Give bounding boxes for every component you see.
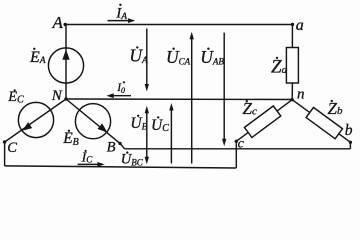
bottom wire C to c: [5, 166, 237, 168]
arrowhead EB down-right (emf direction): [98, 123, 108, 132]
voltage arrow UBC line: [146, 149, 148, 159]
node A dot: [63, 23, 66, 26]
node N dot: [64, 97, 67, 100]
dot of UBC: [126, 151, 128, 153]
voltage arrow UC line: [170, 109, 172, 164]
wire a down to Za: [291, 25, 293, 48]
svg-text:a: a: [296, 17, 304, 34]
svg-text:A: A: [52, 13, 64, 32]
arrowhead UC up: [169, 103, 173, 111]
dot of IA: [119, 4, 121, 6]
svg-text:C: C: [7, 140, 17, 156]
wire b stub up: [349, 142, 351, 149]
voltage arrow UA line: [146, 29, 148, 86]
wire B corner: [120, 143, 125, 148]
voltage arrow UCA line: [191, 38, 193, 164]
arrowhead IC right: [97, 162, 104, 167]
arrowhead UBC down: [145, 157, 149, 165]
dot of Zc: [246, 100, 248, 102]
svg-text:N: N: [51, 88, 63, 104]
arrowhead UCA up: [190, 32, 194, 40]
voltage arrow UAB line: [223, 33, 225, 141]
arrowhead IA right: [128, 18, 135, 23]
wire N to B (diagonal): [66, 99, 120, 143]
dot of UAB: [207, 48, 209, 50]
arrowhead EA up (emf direction): [62, 50, 69, 60]
wire C down to bottom wire: [4, 142, 6, 166]
node C dot: [3, 140, 6, 143]
dot of Zb: [331, 100, 333, 102]
dot of IC: [85, 150, 87, 152]
source EA circle: [48, 48, 83, 83]
node c dot: [235, 140, 238, 143]
dot of UCA: [172, 48, 174, 50]
wire n to Zc to c (diagonal): [236, 100, 292, 142]
node a dot: [291, 23, 294, 26]
impedance Zb rectangle: [306, 107, 342, 138]
impedance Za rectangle: [286, 48, 298, 84]
wire B to b (bottom phase wire): [125, 148, 351, 150]
svg-text:B: B: [107, 139, 116, 155]
arrowhead UAB down: [222, 139, 226, 147]
dot of Za: [276, 57, 278, 59]
arrowhead UA down: [145, 84, 149, 92]
wire Za to n: [291, 83, 293, 100]
current arrow IA line: [108, 20, 131, 22]
current arrow I0 line: [112, 95, 132, 97]
node B dot: [118, 142, 121, 145]
impedance Zc rectangle: [244, 106, 280, 138]
wire A to a (top line wire): [65, 24, 292, 26]
source EC circle: [18, 102, 53, 137]
dot of UB: [137, 115, 139, 117]
source EB circle: [75, 104, 110, 139]
current arrow IC line: [78, 163, 99, 165]
wire N to C (diagonal): [5, 99, 66, 142]
arrowhead UB up: [145, 106, 149, 114]
dot of UC: [157, 116, 159, 118]
node b dot: [349, 141, 352, 144]
arrowhead I0 left: [106, 93, 113, 98]
dot of UA: [136, 46, 138, 48]
wire A down through source EA to N: [65, 25, 67, 100]
arrowhead EC down-left (emf direction): [22, 122, 32, 131]
node n dot: [291, 98, 294, 101]
dot of EB: [68, 130, 70, 132]
neutral wire N to n: [66, 98, 292, 101]
svg-text:c: c: [238, 136, 245, 151]
dot of I0: [123, 81, 125, 83]
svg-text:n: n: [297, 86, 305, 102]
wire n to Zb to b (diagonal): [292, 100, 350, 143]
dot of EA: [33, 48, 35, 50]
dot of EC: [14, 89, 16, 91]
svg-text:b: b: [345, 122, 353, 139]
voltage arrow UB line: [146, 112, 148, 149]
wire c stub up: [235, 141, 237, 168]
